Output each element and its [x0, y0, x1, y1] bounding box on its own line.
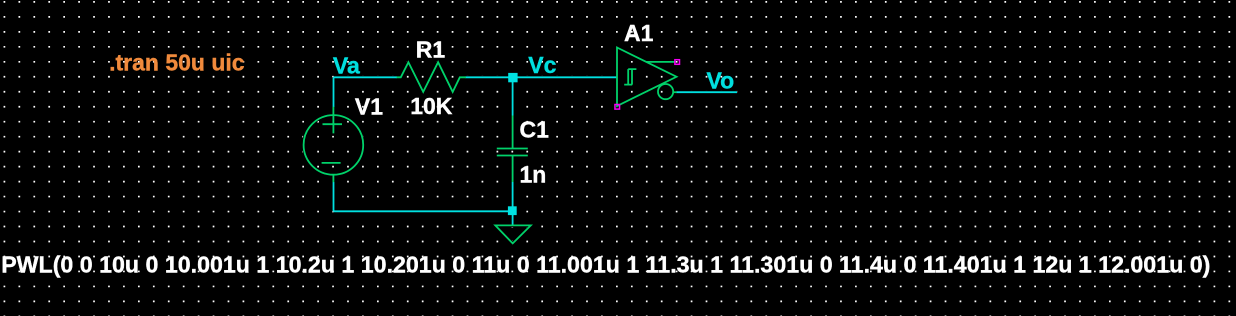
svg-text:A1: A1 — [624, 20, 654, 46]
svg-text:PWL(0 0 10u 0 10.001u 1 10.2u: PWL(0 0 10u 0 10.001u 1 10.2u 1 10.201u … — [1, 252, 1210, 278]
svg-text:Vc: Vc — [528, 52, 556, 78]
svg-text:10K: 10K — [410, 93, 453, 119]
svg-text:.tran 50u uic: .tran 50u uic — [109, 50, 245, 76]
svg-text:1n: 1n — [520, 161, 547, 187]
svg-text:V1: V1 — [355, 93, 383, 119]
svg-text:Vo: Vo — [707, 68, 735, 94]
svg-text:R1: R1 — [416, 37, 446, 63]
svg-text:C1: C1 — [520, 116, 550, 142]
svg-text:Va: Va — [333, 52, 360, 78]
